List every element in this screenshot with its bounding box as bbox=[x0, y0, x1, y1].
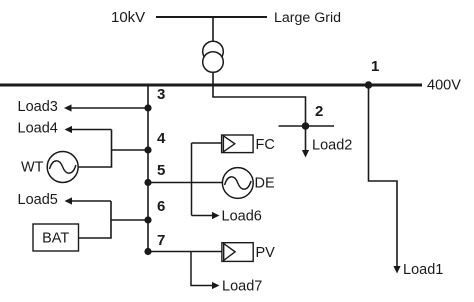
wire node 2 stub bbox=[279, 125, 335, 127]
generator DE bbox=[222, 168, 253, 199]
svg-text:Load5: Load5 bbox=[18, 192, 58, 208]
svg-text:7: 7 bbox=[157, 232, 165, 249]
junction node 6 bbox=[144, 216, 151, 223]
junction node 5 bbox=[144, 179, 151, 186]
svg-text:DE: DE bbox=[255, 176, 275, 192]
svg-text:2: 2 bbox=[315, 103, 323, 120]
converter PV box bbox=[222, 243, 253, 262]
junction node 3 bbox=[144, 104, 151, 111]
wire Load2 drop bbox=[305, 126, 307, 151]
arrowhead Load6 bbox=[212, 212, 220, 219]
wire 10kV feeder line bbox=[156, 16, 267, 18]
arrowhead Load4 bbox=[65, 126, 73, 133]
generator WT bbox=[47, 152, 78, 183]
transformer T1 bbox=[203, 41, 224, 72]
converter FC box bbox=[222, 135, 254, 153]
svg-text:Load1: Load1 bbox=[403, 262, 443, 278]
wire node 4 branch bbox=[112, 149, 149, 151]
wire node1 to Load1 bbox=[369, 85, 398, 267]
svg-text:Large Grid: Large Grid bbox=[274, 10, 341, 26]
arrowhead Load1 bbox=[393, 266, 400, 274]
wire Load7 riser bbox=[191, 252, 214, 286]
svg-text:BAT: BAT bbox=[42, 231, 69, 247]
wire WT riser bbox=[78, 130, 111, 168]
wire FC/Load6 riser bbox=[191, 143, 193, 216]
wire Load5 branch bbox=[70, 200, 111, 202]
svg-text:WT: WT bbox=[21, 160, 44, 176]
arrowhead Load2 bbox=[302, 150, 309, 158]
wire Load4 branch bbox=[70, 129, 112, 131]
wire node 3 to Load3 bbox=[70, 107, 148, 109]
bus 400V bbox=[0, 84, 422, 87]
wire left feeder bus bbox=[147, 85, 149, 252]
svg-text:FC: FC bbox=[256, 137, 275, 153]
junction node 1 bbox=[365, 81, 373, 89]
wire Load6 branch bbox=[192, 215, 214, 217]
svg-text:Load4: Load4 bbox=[18, 121, 58, 137]
junction node 7 bbox=[144, 248, 151, 255]
junction node 4 bbox=[144, 146, 151, 153]
svg-text:1: 1 bbox=[371, 58, 379, 75]
svg-text:PV: PV bbox=[256, 245, 276, 261]
svg-text:400V: 400V bbox=[427, 78, 461, 94]
wire FC branch bbox=[192, 142, 222, 144]
wire transformer drop and branch to node 2 bbox=[213, 17, 306, 126]
svg-text:3: 3 bbox=[157, 86, 165, 103]
svg-text:10kV: 10kV bbox=[111, 9, 145, 26]
arrowhead Load3 bbox=[64, 104, 72, 111]
wire node 7 to PV bbox=[148, 251, 222, 253]
svg-text:Load7: Load7 bbox=[222, 279, 262, 295]
wire node 6 branch bbox=[111, 219, 148, 221]
svg-text:Load2: Load2 bbox=[312, 138, 352, 154]
battery BAT box bbox=[33, 224, 79, 251]
arrowhead Load5 bbox=[65, 197, 73, 204]
junction node 2 bbox=[302, 122, 310, 130]
wire BAT riser bbox=[79, 201, 111, 238]
svg-text:6: 6 bbox=[157, 198, 165, 215]
svg-text:5: 5 bbox=[157, 162, 165, 179]
arrowhead Load7 bbox=[212, 282, 220, 289]
svg-text:4: 4 bbox=[157, 130, 166, 147]
wire node 5 to DE bbox=[148, 182, 222, 184]
svg-text:Load6: Load6 bbox=[222, 209, 262, 225]
svg-text:Load3: Load3 bbox=[18, 99, 58, 115]
